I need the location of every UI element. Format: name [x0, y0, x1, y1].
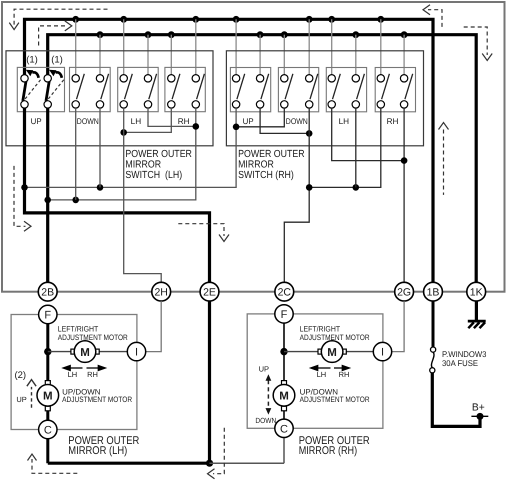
wire: junction to left/right motor (RH mirror) — [284, 351, 373, 353]
wire: line A2 to RH-L contact (RH switch) — [309, 108, 381, 187]
svg-text:ADJUSTMENT MOTOR: ADJUSTMENT MOTOR — [58, 333, 128, 342]
svg-text:2E: 2E — [203, 287, 216, 299]
wire: interconnect UP-R contact to DOWN-R column (RH switch) — [260, 108, 309, 133]
terminal F (LH mirror) — [39, 305, 57, 323]
outer box bottom edge / connector row line — [2, 291, 505, 293]
switch assembly box: POWER OUTER MIRROR SWITCH (LH) — [6, 51, 213, 146]
wire: RH-R bottom contact down to connector 2G — [403, 108, 405, 283]
svg-text:M: M — [279, 391, 289, 403]
node: dot line A2 at DOWN-R column — [306, 184, 313, 191]
dashed arrow UP direction (LH mirror) — [27, 380, 36, 408]
wire: thick feed F down to up/down motor and C (LH mirror) — [46, 324, 49, 464]
motor M2 up/down adjustment (RH mirror) — [273, 381, 295, 411]
connector 1B — [424, 282, 443, 301]
switch cell LH (RH switch) — [326, 68, 366, 112]
connector 2E — [200, 282, 219, 301]
switch cell UP (LH switch) — [17, 67, 64, 111]
svg-text:LH: LH — [339, 117, 350, 126]
wire: line A common bus to RH switch UP-L contact — [25, 108, 237, 187]
switch cell DOWN (RH switch) — [278, 68, 318, 112]
svg-text:UP: UP — [16, 395, 26, 404]
svg-text:(1): (1) — [51, 55, 63, 66]
actuation curved arrow on UP-L pole — [26, 70, 39, 78]
svg-text:F: F — [281, 309, 288, 321]
label POWER OUTER MIRROR (LH) — [68, 435, 139, 457]
label POWER OUTER MIRROR (RH) — [299, 435, 370, 457]
svg-text:M: M — [80, 347, 90, 359]
wire: thick feed line 1 from connector 1B up and across to UP-L contact — [25, 19, 434, 282]
wire: LH-L bottom contact down and jog to connector 2H — [124, 108, 162, 283]
wire: interconnect UP-L column to DOWN-L contact (RH switch) — [236, 108, 284, 127]
wire: feed F down to up/down motor and C (RH mirror) — [283, 323, 285, 419]
motor M1 left/right adjustment (RH mirror) — [318, 341, 346, 363]
node: dot at UP-L column interconnect (RH switch) — [233, 124, 240, 131]
connector 2G — [395, 282, 414, 301]
svg-text:2H: 2H — [154, 287, 167, 299]
wire: DOWN-L bottom contact drop to line B (LH switch) — [75, 108, 77, 200]
wire: I terminal to connector 2G (RH mirror) — [392, 301, 404, 352]
svg-text:POWER OUTER: POWER OUTER — [238, 149, 305, 160]
svg-text:SWITCH (LH): SWITCH (LH) — [125, 170, 182, 181]
arrows LH/RH travel (LH mirror) — [63, 366, 105, 371]
label UP/DOWN ADJUSTMENT MOTOR (LH mirror) — [62, 388, 132, 404]
switch top contacts (LH switch) — [21, 75, 200, 82]
wire: line B from 2B net to RH-R contact (LH switch) — [48, 108, 196, 200]
wire: DOWN-R bottom contact drop to line A (LH switch) — [99, 108, 101, 187]
dashed flow arrow bottom-center pointing left — [208, 428, 225, 479]
terminal C (LH mirror) — [39, 420, 57, 438]
wire: thick common net below connector 2E down to bottom junction — [208, 301, 211, 463]
svg-text:ADJUSTMENT MOTOR: ADJUSTMENT MOTOR — [300, 395, 370, 404]
node: dot line B at UP-R column — [44, 197, 51, 204]
svg-text:C: C — [44, 425, 52, 437]
label POWER OUTER MIRROR SWITCH (LH) — [125, 149, 192, 181]
node: dot line A at DOWN-R drop — [97, 184, 104, 191]
motor M1 left/right adjustment (LH mirror) — [71, 341, 99, 363]
switch bottom contacts (RH switch) — [232, 101, 407, 108]
svg-text:F: F — [44, 310, 51, 322]
svg-text:ADJUSTMENT MOTOR: ADJUSTMENT MOTOR — [300, 333, 370, 342]
svg-text:ADJUSTMENT MOTOR: ADJUSTMENT MOTOR — [62, 395, 132, 404]
label (2) on LH mirror box edge — [13, 369, 28, 382]
label P.WINDOW3 30A FUSE — [442, 349, 487, 368]
outer boundary box of switch circuit — [2, 2, 505, 292]
switch blades, poles RH switch — [237, 74, 413, 99]
svg-text:MIRROR (LH): MIRROR (LH) — [68, 445, 127, 457]
wire: LH-L bottom contact to 2G bus (RH switch) — [332, 108, 404, 161]
svg-text:DOWN: DOWN — [255, 416, 276, 425]
wire: gray feed drops from line 1 to switch top contacts — [76, 19, 381, 75]
node: dot line A at UP-L — [21, 184, 28, 191]
wire: gray feed drops from line 2 to switch top contacts — [100, 35, 404, 75]
actuation dashed stroke on UP-R pole — [48, 80, 64, 99]
svg-text:2C: 2C — [278, 287, 292, 299]
switch bottom contacts (LH switch) — [21, 101, 200, 108]
box: POWER OUTER MIRROR (LH) — [11, 315, 137, 430]
svg-text:UP: UP — [31, 117, 42, 126]
connector 1K — [467, 282, 486, 301]
svg-text:RH: RH — [387, 117, 399, 126]
dashed double arrow UP/DOWN direction (RH mirror) — [266, 374, 272, 414]
label LEFT/RIGHT ADJUSTMENT MOTOR (RH mirror) — [300, 325, 370, 342]
wire: thick from UP-R bottom contact down to connector 2B — [46, 108, 49, 283]
wire: thick from fuse to B+ terminal — [432, 373, 480, 427]
wire: thick from connector 1K down to ground — [475, 301, 478, 320]
node: dot on 2G wire — [401, 157, 408, 164]
wire: junction to left/right motor (LH mirror) — [48, 351, 128, 353]
svg-text:B+: B+ — [472, 403, 485, 414]
svg-text:LH: LH — [317, 370, 327, 379]
svg-text:MIRROR: MIRROR — [238, 159, 274, 170]
ground symbol — [468, 321, 486, 328]
svg-text:M: M — [43, 391, 53, 403]
wire: I terminal to connector 2H (LH mirror) — [146, 301, 162, 352]
wire: thick from connector 1B down to fuse — [432, 301, 435, 347]
svg-text:I: I — [381, 347, 384, 359]
switch cell DOWN (LH switch) — [70, 67, 111, 111]
arrows LH/RH travel (RH mirror) — [311, 366, 350, 371]
svg-text:(1): (1) — [26, 55, 38, 66]
node: dot at F column junction (RH mirror) — [280, 348, 287, 355]
node: dot at F column junction (LH mirror) — [44, 348, 51, 355]
switch cell UP (RH switch) — [230, 68, 270, 112]
node: bottom junction dot at 2E line — [206, 460, 213, 467]
switch cell LH (LH switch) — [118, 67, 159, 111]
dashed flow arrow top-left pointing down — [9, 9, 107, 29]
svg-text:RH: RH — [87, 370, 98, 379]
node: dot at DOWN-R column interconnect (RH switch) — [306, 130, 313, 137]
switch blades UP poles (LH switch, bold actuated) — [23, 81, 26, 101]
node: dot line B at DOWN-L drop — [72, 197, 79, 204]
svg-text:30A FUSE: 30A FUSE — [442, 358, 478, 368]
label POWER OUTER MIRROR SWITCH (RH) — [238, 149, 305, 181]
svg-text:UP: UP — [243, 117, 254, 126]
dashed flow arrow left edge pointing right — [14, 166, 31, 231]
svg-text:C: C — [280, 423, 288, 435]
svg-text:SWITCH (RH): SWITCH (RH) — [238, 170, 294, 181]
wire: DOWN-R bottom contact down with jog to connector 2C (RH switch) — [284, 108, 309, 283]
svg-text:MIRROR: MIRROR — [125, 159, 161, 170]
wire: thick common net from UP-L bottom contact across to connector 2E and down — [25, 108, 210, 283]
node: dot line A2 at LH-R drop — [353, 184, 360, 191]
svg-text:LH: LH — [131, 117, 142, 126]
svg-text:DOWN: DOWN — [77, 117, 99, 126]
dashed flow arrow pointing up beside 1B wire — [439, 123, 449, 195]
connector 2C — [275, 282, 294, 301]
svg-text:(2): (2) — [14, 370, 26, 381]
dashed flow arrow top-right pointing down — [464, 27, 493, 61]
svg-text:LH: LH — [68, 370, 78, 379]
svg-text:1B: 1B — [427, 287, 440, 299]
actuation curved arrow on UP-R pole — [49, 70, 62, 78]
switch top contacts (RH switch) — [232, 75, 407, 82]
node: dot at LH-L column interconnect — [120, 129, 127, 136]
connector 2B — [38, 282, 57, 301]
svg-text:1K: 1K — [470, 287, 483, 299]
box: POWER OUTER MIRROR (RH) — [247, 314, 383, 428]
dashed flow arrow bottom-left pointing up — [28, 454, 78, 473]
switch assembly box: POWER OUTER MIRROR SWITCH (RH) — [226, 51, 423, 146]
svg-text:M: M — [327, 347, 337, 359]
svg-text:MIRROR (RH): MIRROR (RH) — [299, 445, 358, 457]
terminal C (RH mirror) — [275, 419, 293, 437]
node: junction dots on feed line 2 — [97, 31, 408, 38]
wire: LH-R bottom contact drop to line A2 (RH switch) — [355, 108, 357, 187]
wire: bottom run from junction to RH mirror C — [210, 438, 285, 464]
svg-text:UP: UP — [259, 364, 269, 373]
wire: thick feed line 2 from connector 1K up and across to UP-R contact — [48, 35, 477, 283]
svg-text:2G: 2G — [397, 287, 411, 299]
dashed flow arrow near 2E pointing down — [178, 224, 229, 242]
node: B+ terminal dot — [471, 413, 488, 420]
svg-text:I: I — [135, 347, 138, 359]
terminal F (RH mirror) — [275, 305, 293, 323]
svg-text:RH: RH — [339, 370, 350, 379]
svg-text:2B: 2B — [41, 287, 54, 299]
wire: thick bottom run from LH mirror C to 2E junction — [48, 462, 210, 465]
svg-text:POWER OUTER: POWER OUTER — [125, 149, 192, 160]
dashed flow arrow top-right pointing left — [423, 5, 442, 27]
node: dot at RH-R column interconnect — [193, 123, 200, 130]
svg-text:DOWN: DOWN — [286, 117, 308, 126]
motor M2 up/down adjustment (LH mirror) — [37, 381, 59, 411]
terminal I (RH mirror) — [373, 342, 391, 360]
switch cell RH (LH switch) — [165, 67, 205, 111]
connector 2H — [152, 282, 171, 301]
fuse P.WINDOW3 30A — [430, 347, 436, 373]
dashed flow arrow pointing right near feed line 2 — [39, 21, 72, 46]
switch cell RH (RH switch) — [375, 68, 415, 112]
actuation dashed stroke on UP-L pole — [25, 80, 41, 99]
switch blades, thin poles LH switch — [77, 74, 205, 99]
terminal I (LH mirror) — [127, 342, 145, 360]
wire: interconnect LH-R contact to RH-R column (LH switch) — [148, 108, 196, 126]
label UP/DOWN ADJUSTMENT MOTOR (RH mirror) — [300, 388, 370, 404]
node: junction dots on feed line 1 — [72, 16, 384, 23]
svg-text:RH: RH — [178, 117, 190, 126]
wire: interconnect LH-L column to RH-L contact (LH switch) — [124, 108, 172, 132]
label LEFT/RIGHT ADJUSTMENT MOTOR (LH mirror) — [58, 325, 128, 342]
